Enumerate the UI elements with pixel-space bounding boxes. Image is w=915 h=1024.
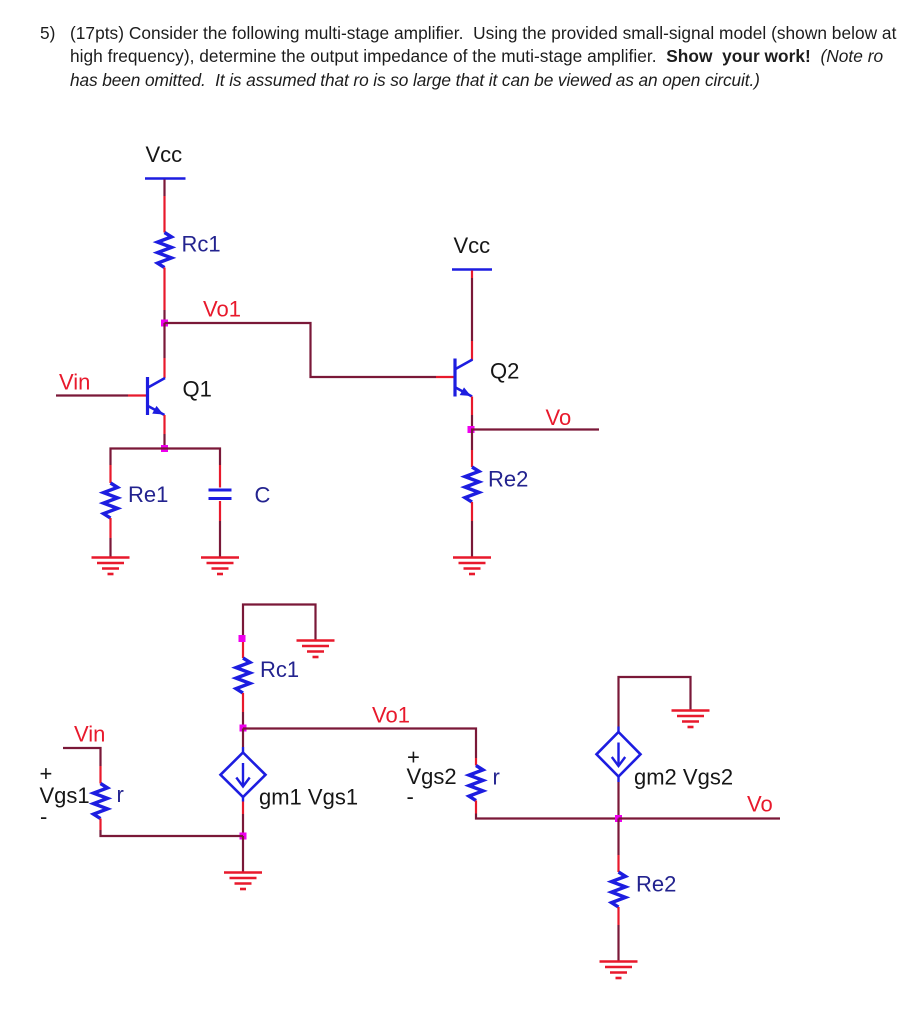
- node emitter junction dot: [161, 445, 168, 452]
- svg-text:Rc1: Rc1: [182, 232, 221, 257]
- wire gm2 to Vo node: [617, 777, 619, 819]
- wire Q1 emitter to node: [163, 415, 165, 449]
- ground top right (model stage 1): [297, 641, 335, 658]
- wire emitter node horizontal: [111, 449, 221, 466]
- svg-text:Vin: Vin: [59, 370, 90, 395]
- svg-text:Vo1: Vo1: [203, 297, 241, 322]
- node bottom junction dot: [240, 833, 247, 840]
- svg-text:Vin: Vin: [74, 722, 105, 747]
- svg-text:gm1 Vgs1: gm1 Vgs1: [259, 785, 358, 810]
- svg-text:Rc1: Rc1: [260, 657, 299, 682]
- wire gm1 to bottom node: [242, 797, 244, 836]
- wire Vin to Q1 base: [56, 394, 146, 396]
- wire Vin to r1: [63, 748, 101, 784]
- ground under Re2: [453, 558, 491, 575]
- wire Vo node to Re2: [471, 430, 473, 468]
- wire Q2 base pin: [436, 376, 454, 378]
- wire Vcc2 to Q2 collector: [471, 278, 473, 360]
- node Vo1 model junction dot: [240, 725, 247, 732]
- ground under C: [201, 558, 239, 575]
- wire down to capacitor C: [219, 465, 221, 488]
- svg-text:Re1: Re1: [128, 482, 168, 507]
- wire top of Rc1 model to ground: [243, 605, 316, 641]
- wire bottom node to ground: [242, 836, 244, 872]
- svg-text:gm2 Vgs2: gm2 Vgs2: [634, 765, 733, 790]
- svg-text:-: -: [407, 784, 414, 809]
- wire node down to gm1 source: [242, 729, 244, 753]
- node Vo junction dot: [468, 426, 475, 433]
- label + Vgs1 -: [40, 761, 90, 829]
- ground top (model stage 2): [672, 711, 710, 728]
- problem statement text: [40, 23, 55, 43]
- power symbol VCC (stage 2): [452, 233, 492, 278]
- wire Vo output: [471, 428, 599, 430]
- wire Re2 to ground: [471, 502, 473, 557]
- capacitor C: [209, 483, 271, 508]
- wire Vcc1 to Rc1: [163, 187, 165, 233]
- transistor Q1: [148, 377, 212, 416]
- node Vo model junction dot: [615, 815, 622, 822]
- svg-text:Re2: Re2: [636, 872, 676, 897]
- wire Vo1 model to Vgs2 branch: [243, 729, 476, 759]
- svg-text:Vo1: Vo1: [372, 703, 410, 728]
- wire Rc1 to node Vo1: [163, 268, 165, 324]
- resistor Re1: [104, 482, 169, 518]
- svg-text:C: C: [255, 483, 271, 508]
- svg-text:Vcc: Vcc: [146, 142, 183, 167]
- wire node Vo1 down to Q1 collector: [163, 323, 165, 378]
- ground bottom (model stage 2): [600, 962, 638, 979]
- wire Rc1 model to node Vo1 model: [242, 693, 244, 728]
- svg-text:Vcc: Vcc: [454, 233, 491, 258]
- resistor Re2 (stage 2): [465, 467, 528, 503]
- wire Vo1 to Q2 base: [165, 323, 437, 377]
- svg-text:Vo: Vo: [747, 792, 773, 817]
- wire Re1 to ground: [109, 518, 111, 557]
- wire gm2 top to ground: [619, 677, 691, 727]
- resistor Rc1 (stage 1): [158, 232, 221, 268]
- wire r1 to bottom node: [101, 819, 244, 837]
- svg-text:-: -: [40, 804, 47, 829]
- node Vo1 junction dot: [161, 320, 168, 327]
- wire Re2 model to ground: [617, 907, 619, 961]
- wire node to Rc1 model: [242, 642, 244, 658]
- ground under gm1: [224, 873, 262, 890]
- svg-text:Q1: Q1: [183, 377, 212, 402]
- resistor r (input, model stage 1): [94, 782, 124, 819]
- svg-text:r: r: [493, 765, 500, 790]
- resistor Rc1 (model): [236, 657, 299, 693]
- node Rc1 top junction dot: [239, 635, 246, 642]
- resistor Re2 (model): [612, 872, 677, 908]
- svg-text:Re2: Re2: [488, 467, 528, 492]
- wire r2 to Vo rail: [476, 801, 619, 819]
- wire down to Re1: [109, 465, 111, 483]
- svg-text:Vo: Vo: [546, 405, 572, 430]
- wire Vo rail right: [619, 817, 781, 819]
- transistor Q2: [455, 359, 519, 397]
- dependent source gm2 Vgs2: [597, 727, 734, 790]
- wire Vo node down to Re2 model: [617, 819, 619, 873]
- label + Vgs2 -: [407, 745, 457, 810]
- wire Q2 emitter to Vo node: [471, 397, 473, 430]
- power symbol VCC (stage 1): [145, 142, 186, 187]
- resistor r (model stage 2): [469, 758, 500, 801]
- svg-text:Q2: Q2: [490, 359, 519, 384]
- wire C to ground: [219, 501, 221, 557]
- ground under Re1: [92, 558, 130, 575]
- svg-text:Vgs2: Vgs2: [407, 764, 457, 789]
- svg-text:r: r: [117, 782, 124, 807]
- dependent source gm1 Vgs1: [221, 753, 359, 810]
